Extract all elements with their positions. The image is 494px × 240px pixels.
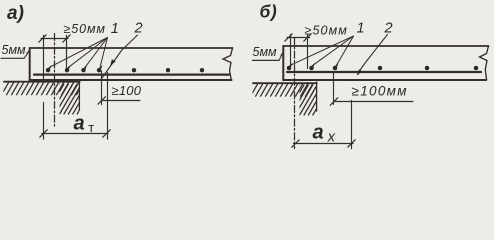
transverse bar dots 1 (fig b) [287,66,479,71]
ground line (fig a) [4,81,80,83]
leader line for label 2 (fig a) [101,35,137,79]
leader fan from label 1 to dots (fig a) [50,38,108,68]
dimension a_t (fig a) [40,130,110,137]
wall right edge (fig b) [316,82,318,111]
dimension >=100 (fig a) [98,71,140,105]
support centerline (fig b) [294,38,296,149]
svg-text:≥100мм: ≥100мм [352,84,408,99]
leader arrowheads on dots (fig b) [289,63,339,67]
leader arrowheads on dots (fig a) [48,65,103,69]
svg-text:≥50мм: ≥50мм [64,22,106,36]
longitudinal bar 2 (fig b) [287,71,481,73]
dimension >=50mm (fig a) [39,35,70,42]
svg-text:5мм: 5мм [253,45,278,59]
svg-text:а: а [74,112,85,134]
svg-text:т: т [88,120,94,135]
slab break line right end (fig a) [223,48,233,80]
svg-text:а): а) [7,3,24,24]
svg-text:5мм: 5мм [2,43,27,57]
dimension a_x extension right (fig b) [351,101,353,149]
leader fan from label 1 to dots (fig b) [291,36,354,65]
leader line for label 2 (fig b) [358,35,388,75]
svg-text:х: х [327,130,336,146]
svg-text:б): б) [260,1,278,21]
dimension a_x (fig b) [292,140,355,147]
support centerline (fig a) [54,34,56,127]
leader 2 arrowhead (fig a) [110,59,115,65]
transverse bar dots 1 (fig a) [46,68,204,72]
svg-text:а: а [313,121,324,143]
svg-text:≥100: ≥100 [112,83,142,98]
wall right edge (fig a) [78,81,80,111]
dimension a_t extension right (fig a) [107,73,109,140]
wall hatching below (fig b) [282,85,330,115]
extension line to dot (fig a) [66,35,68,70]
slab break line right end (fig b) [480,46,489,80]
dimension >=50mm (fig b) [285,34,311,41]
ground line (fig b) [253,82,317,84]
ground hatching (fig a) [2,82,84,95]
extension line mesh end (fig a) [43,35,45,79]
ground hatching (fig b) [251,84,323,97]
wall hatching below (fig a) [42,84,95,114]
svg-text:2: 2 [384,20,393,36]
extension lines >=50 (fig b) [290,35,292,69]
svg-text:≥50мм: ≥50мм [305,24,348,38]
dimension >=100mm (fig b) [330,73,413,106]
leader 2 arrowhead (fig b) [357,69,362,75]
svg-text:1: 1 [357,20,365,36]
slab outline (fig b) [283,46,488,80]
svg-text:1: 1 [111,21,119,37]
svg-text:2: 2 [134,21,143,37]
slab outline (fig a) [30,48,233,80]
longitudinal bar 2 (fig a) [34,73,229,75]
